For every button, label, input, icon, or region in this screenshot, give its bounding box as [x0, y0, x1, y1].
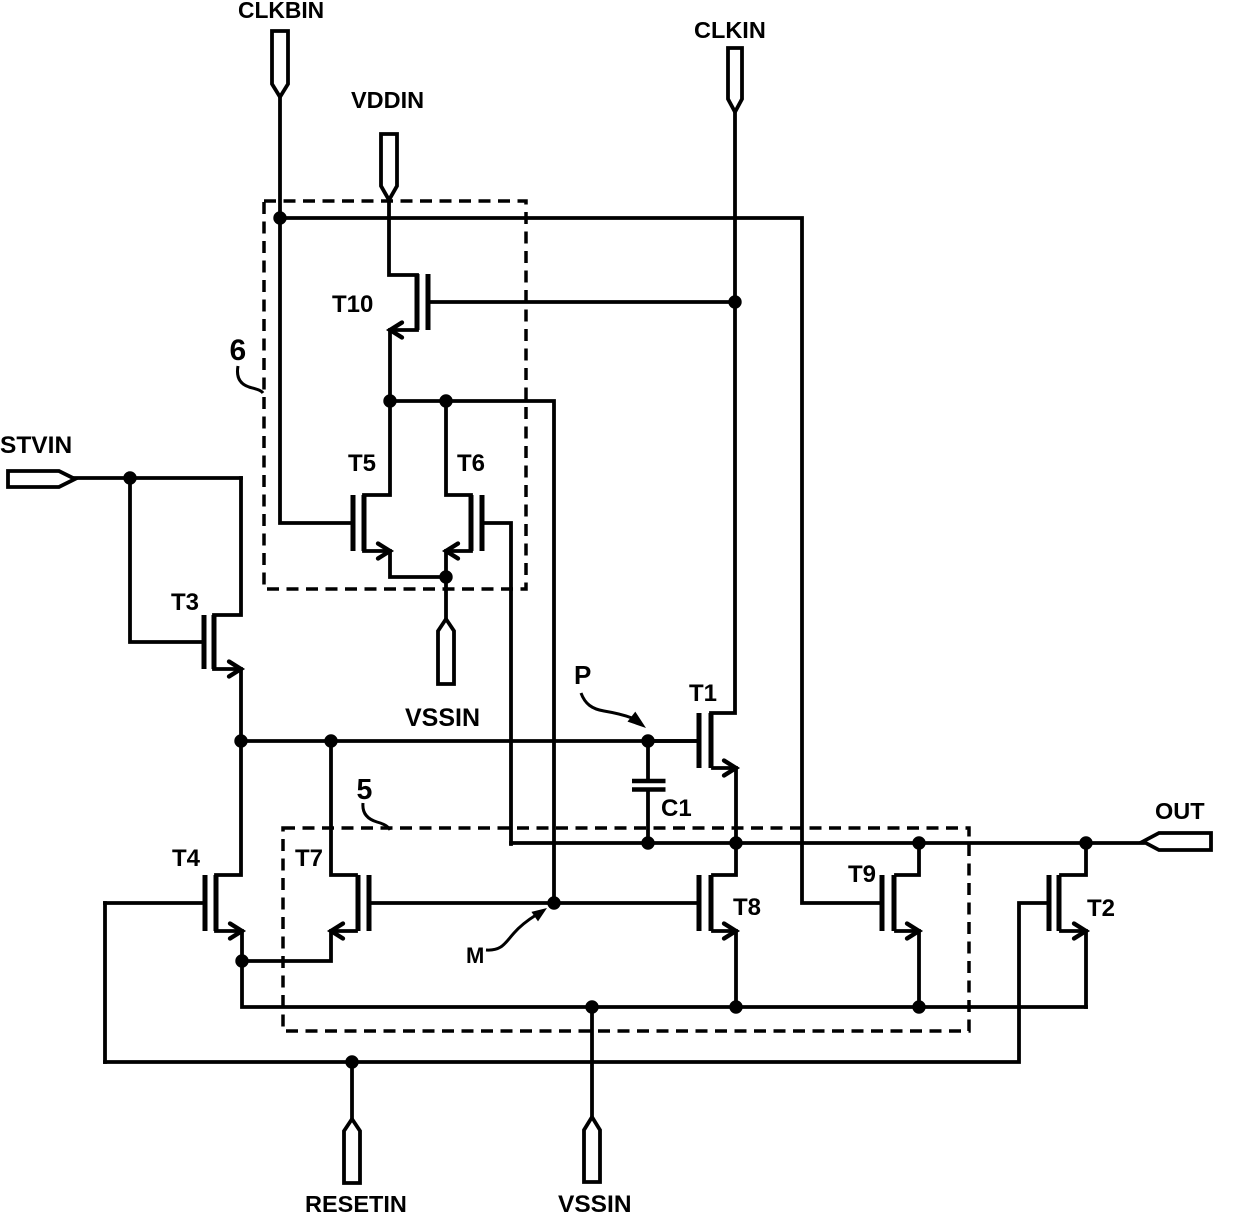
svg-text:CLKBIN: CLKBIN	[238, 0, 324, 23]
svg-text:T3: T3	[171, 589, 199, 616]
svg-text:P: P	[574, 660, 591, 690]
svg-text:VDDIN: VDDIN	[351, 87, 424, 113]
svg-text:T8: T8	[733, 894, 761, 921]
svg-text:C1: C1	[661, 795, 692, 822]
svg-text:VSSIN: VSSIN	[558, 1191, 632, 1213]
svg-text:T1: T1	[689, 680, 717, 707]
svg-text:RESETIN: RESETIN	[305, 1191, 407, 1213]
svg-text:6: 6	[230, 334, 247, 367]
svg-text:CLKIN: CLKIN	[694, 17, 766, 43]
svg-text:T9: T9	[848, 861, 876, 888]
svg-text:T7: T7	[295, 845, 323, 872]
svg-text:M: M	[466, 943, 484, 968]
svg-text:STVIN: STVIN	[0, 432, 72, 459]
svg-text:T6: T6	[457, 450, 485, 477]
svg-text:T2: T2	[1087, 895, 1115, 922]
svg-text:T5: T5	[348, 450, 376, 477]
svg-text:5: 5	[357, 774, 373, 806]
svg-text:T10: T10	[332, 291, 373, 318]
svg-text:OUT: OUT	[1155, 798, 1205, 824]
svg-text:T4: T4	[172, 845, 201, 872]
svg-text:VSSIN: VSSIN	[405, 704, 480, 732]
